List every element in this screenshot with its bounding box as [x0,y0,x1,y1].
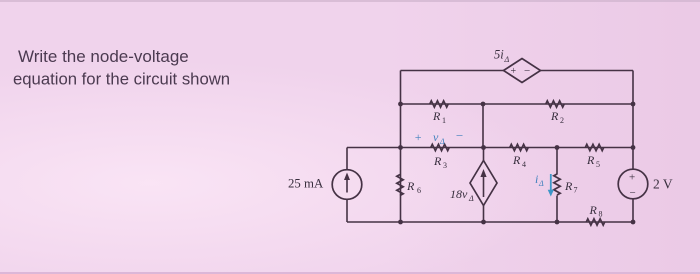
node R1-R2 junction [481,102,486,107]
wire R1-R2 line [401,103,634,105]
svg-text:18v: 18v [450,187,468,201]
svg-text:R: R [586,153,595,167]
wire 18v source branch [483,148,485,223]
node R5-line right [631,145,636,150]
node R1-line right [631,102,636,107]
svg-text:R: R [406,179,415,193]
resistor R7 [554,174,560,195]
svg-text:−: − [630,187,636,199]
wire R3-R4-R5 line [347,147,633,149]
svg-text:Δ: Δ [538,179,544,188]
node R1-line left [398,102,403,107]
svg-text:3: 3 [443,161,447,170]
svg-text:2: 2 [560,116,564,125]
resistor R3 [431,144,449,150]
resistor R4 [510,144,528,150]
svg-text:−: − [455,128,464,143]
resistor R1 [430,101,448,107]
svg-text:5i: 5i [494,48,504,62]
voltage source 2 V [618,169,648,199]
svg-text:Δ: Δ [468,194,474,203]
dependent source 5i (diamond, top) [504,59,541,83]
svg-text:Δ: Δ [439,137,445,146]
svg-text:v: v [433,130,439,144]
svg-text:25 mA: 25 mA [288,177,324,191]
node R3-line left [398,145,403,150]
wire R7 branch [556,148,558,223]
svg-text:8: 8 [599,210,603,219]
svg-text:6: 6 [417,186,421,195]
dependent source 18v (diamond) [470,161,497,206]
svg-text:4: 4 [522,160,526,169]
node R3-R4 junction [481,145,486,150]
svg-text:+: + [629,172,635,184]
svg-text:R: R [432,109,441,123]
svg-text:+: + [511,66,517,77]
svg-text:i: i [535,172,538,186]
svg-text:R: R [589,203,598,217]
resistor R5 [585,144,603,150]
svg-text:2 V: 2 V [653,177,673,192]
svg-text:7: 7 [574,186,578,195]
node dots [398,102,635,225]
wire left rail [400,71,402,223]
svg-text:equation for the circuit shown: equation for the circuit shown [13,70,230,89]
svg-text:5: 5 [596,160,600,169]
wire top rail [401,70,634,72]
resistor R8 [586,219,604,225]
node bottom 18v [481,220,486,225]
node bottom left [398,220,403,225]
svg-text:R: R [564,179,573,193]
svg-text:R: R [512,153,521,167]
resistor R2 [546,101,564,107]
wire 25mA branch [346,148,348,223]
node R4-R5 junction [555,145,560,150]
svg-text:R: R [550,109,559,123]
wire bottom rail [347,221,633,223]
current source 25 mA [332,170,362,200]
wire right rail [632,71,634,223]
svg-text:+: + [414,130,422,144]
node bottom R7 [555,220,560,225]
svg-text:−: − [524,65,530,77]
svg-text:R: R [433,154,442,168]
node bottom right [631,220,636,225]
svg-text:1: 1 [442,116,446,125]
svg-text:Write the node-voltage: Write the node-voltage [18,47,189,66]
wire node connector x483 [482,104,484,148]
svg-text:Δ: Δ [504,55,510,64]
resistor R6 [397,175,403,196]
